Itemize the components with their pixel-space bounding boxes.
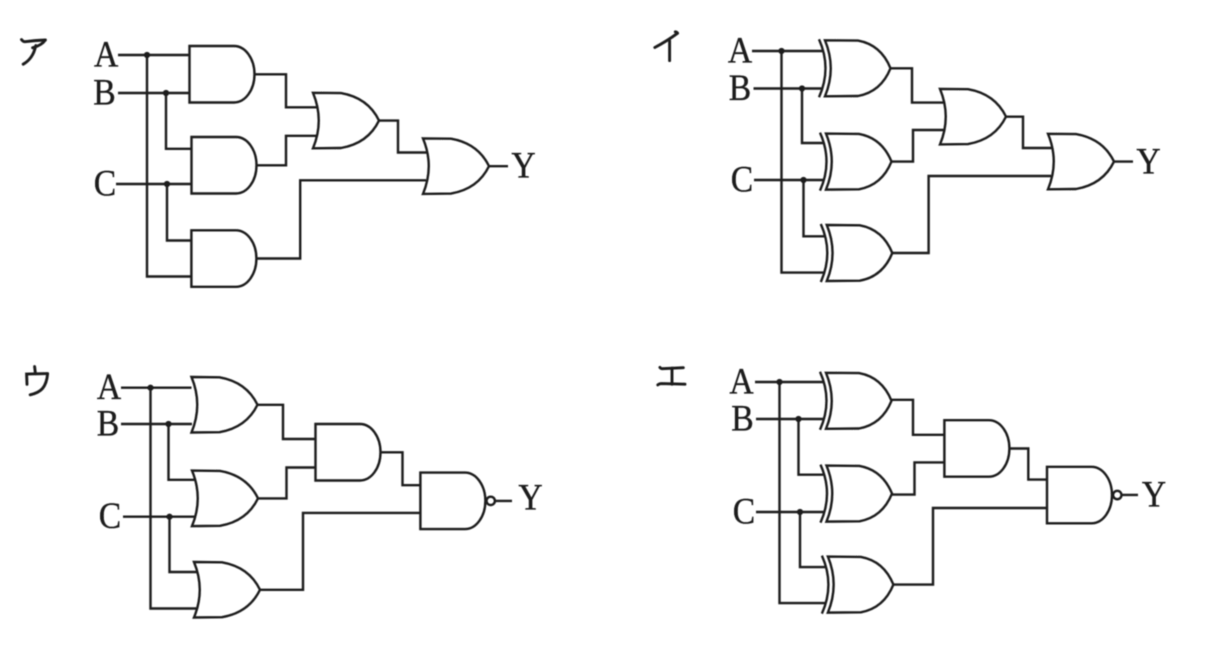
svg-text:B: B	[97, 402, 119, 444]
wire B branch to gate G2 upper input (circuit 3)	[169, 424, 197, 480]
svg-text:A: A	[729, 360, 754, 402]
wire A branch to gate G3 lower input (circuit 3)	[151, 388, 198, 609]
wire output Y (circuit 1)	[490, 165, 509, 167]
wire input A (circuit 2)	[752, 50, 823, 52]
wire input C (circuit 3)	[123, 516, 196, 518]
XOR gate X2 (circuit 4)	[827, 466, 893, 522]
OR gate G3 (circuit 3)	[194, 562, 260, 618]
NAND gate G5 final (circuit 3)	[420, 473, 485, 529]
svg-text:B: B	[93, 71, 115, 113]
XOR gate X1 (circuit 2)	[825, 40, 891, 96]
wire A branch to gate X3 lower input (circuit 2)	[782, 51, 825, 273]
OR gate G4 (circuit 1)	[313, 93, 379, 149]
svg-text:A: A	[728, 29, 753, 71]
wire G2 output to OR gate G4 lower input (circuit 1)	[257, 136, 317, 166]
OR gate G5 final (circuit 2)	[1048, 134, 1114, 190]
AND gate G3 (circuit 1)	[191, 230, 256, 286]
wire C branch to gate X3 upper input (circuit 4)	[800, 512, 825, 567]
svg-text:Y: Y	[1142, 473, 1166, 515]
svg-text:C: C	[731, 158, 753, 200]
wire X2 output to AND gate G4 lower input (circuit 4)	[892, 462, 944, 494]
wire A branch to gate X3 lower input (circuit 4)	[780, 382, 826, 603]
XOR gate X1 (circuit 4)	[826, 373, 892, 429]
node A junction (circuit 3)	[147, 385, 153, 391]
OR gate G5 final (circuit 1)	[423, 138, 489, 194]
wire input A (circuit 1)	[118, 54, 190, 56]
wire C branch to gate G3 upper input (circuit 3)	[170, 517, 198, 572]
wire C branch to gate G3 upper input (circuit 1)	[167, 184, 191, 241]
wire G4 output to OR gate G5 upper input (circuit 2)	[1006, 117, 1052, 148]
circuit option label katakana A (top-left)	[22, 40, 46, 65]
wire G3 output to NAND gate G5 lower input (circuit 3)	[260, 513, 420, 590]
wire G4 output to NAND gate G5 upper input (circuit 3)	[381, 452, 421, 485]
wire input C (circuit 2)	[754, 179, 824, 181]
node A junction (circuit 4)	[776, 379, 782, 385]
wire A branch to gate G3 lower input (circuit 1)	[147, 55, 191, 277]
wire input A (circuit 4)	[755, 381, 824, 383]
wire output Y (circuit 2)	[1115, 160, 1134, 162]
node C junction (circuit 4)	[797, 509, 803, 515]
wire G1 output to OR gate G4 upper input (circuit 1)	[255, 74, 317, 107]
node A junction (circuit 2)	[778, 48, 784, 54]
svg-text:C: C	[94, 162, 116, 204]
svg-text:C: C	[733, 490, 755, 532]
svg-text:C: C	[99, 495, 121, 537]
XOR gate X2 (circuit 2)	[826, 134, 892, 190]
svg-text:B: B	[729, 67, 751, 109]
svg-text:Y: Y	[511, 144, 535, 186]
wire B branch to gate X2 upper input (circuit 4)	[799, 419, 825, 475]
node C junction (circuit 3)	[166, 514, 172, 520]
wire G1 output to AND gate G4 upper input (circuit 3)	[258, 405, 316, 439]
wire C branch to gate X3 upper input (circuit 2)	[804, 180, 825, 236]
circuit option label katakana U (bottom-left)	[27, 367, 48, 395]
wire X3 output to NAND gate G5 lower input (circuit 4)	[893, 508, 1047, 585]
XOR gate X3 (circuit 4)	[828, 557, 894, 613]
wire G4 output to NAND gate G5 upper input (circuit 4)	[1009, 449, 1047, 480]
wire input B (circuit 3)	[121, 423, 192, 425]
node B junction (circuit 2)	[799, 85, 805, 91]
node C junction (circuit 2)	[800, 177, 806, 183]
wire G4 output to OR gate G5 upper input (circuit 1)	[379, 121, 427, 153]
node B junction (circuit 1)	[163, 90, 169, 96]
OR gate G4 (circuit 2)	[940, 89, 1006, 145]
wire X3 output to OR gate G5 lower input (circuit 2)	[892, 176, 1051, 253]
circuit option label katakana I (top-right)	[655, 32, 678, 61]
wire X1 output to OR gate G4 upper input (circuit 2)	[891, 68, 944, 102]
wire input B (circuit 1)	[118, 92, 190, 94]
wire X2 output to OR gate G4 lower input (circuit 2)	[892, 130, 944, 162]
node C junction (circuit 1)	[164, 181, 170, 187]
wire input C (circuit 4)	[756, 511, 825, 513]
AND gate G2 (circuit 1)	[192, 137, 257, 194]
wire output Y (circuit 3)	[494, 500, 512, 502]
wire B branch to gate X2 upper input (circuit 2)	[802, 89, 824, 144]
wire input C (circuit 1)	[116, 183, 192, 185]
wire G3 output to OR gate G5 lower input (circuit 1)	[256, 180, 426, 258]
wire output Y (circuit 4)	[1121, 494, 1138, 496]
AND gate G4 (circuit 3)	[316, 424, 381, 481]
svg-text:Y: Y	[518, 476, 542, 518]
svg-text:A: A	[94, 33, 119, 75]
XOR gate X3 (circuit 2)	[827, 225, 893, 281]
OR gate G1 (circuit 3)	[192, 377, 258, 433]
NAND gate G5 final (circuit 4)	[1047, 467, 1112, 524]
circuit option label katakana E (bottom-right)	[658, 367, 685, 385]
wire G2 output to AND gate G4 lower input (circuit 3)	[258, 468, 316, 499]
node B junction (circuit 4)	[795, 416, 801, 422]
node B junction (circuit 3)	[165, 421, 171, 427]
node A junction (circuit 1)	[144, 52, 150, 58]
wire input B (circuit 4)	[756, 418, 824, 420]
svg-text:A: A	[97, 365, 122, 407]
wire input A (circuit 3)	[121, 387, 192, 389]
AND gate G4 (circuit 4)	[944, 420, 1009, 477]
wire X1 output to AND gate G4 upper input (circuit 4)	[892, 400, 945, 435]
svg-text:B: B	[731, 397, 753, 439]
wire input B (circuit 2)	[754, 87, 823, 89]
AND gate G1 (circuit 1)	[190, 46, 255, 103]
OR gate G2 (circuit 3)	[192, 471, 258, 527]
svg-text:Y: Y	[1136, 140, 1160, 182]
wire B branch to gate G2 upper input (circuit 1)	[166, 93, 192, 149]
